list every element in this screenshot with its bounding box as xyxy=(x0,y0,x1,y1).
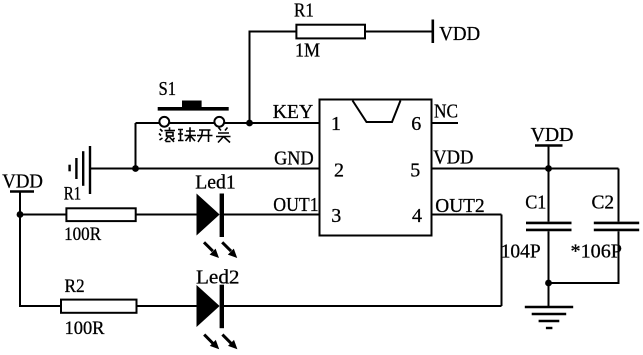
node B (junction on GND row) xyxy=(132,165,139,172)
wire R1 to VDD terminal xyxy=(365,31,432,33)
label OUT2 (pin 4) xyxy=(435,195,484,217)
svg-text:R1: R1 xyxy=(294,0,314,22)
LED Led2 xyxy=(196,267,240,350)
node C (junction on left rail at R1 row) xyxy=(17,211,24,218)
svg-text:*106P: *106P xyxy=(571,241,623,263)
wire VDD row (pin 5 to C2 branch) xyxy=(432,168,619,170)
svg-text:100R: 100R xyxy=(65,318,105,339)
ground (bottom right) xyxy=(525,307,573,328)
svg-text:R1: R1 xyxy=(64,184,81,205)
svg-text:6: 6 xyxy=(411,113,421,135)
switch S1 (pushbutton, ball switch) xyxy=(158,78,229,111)
svg-text:104P: 104P xyxy=(501,241,541,263)
wire switch left leg down to GND row xyxy=(135,123,137,169)
svg-text:100R: 100R xyxy=(64,224,101,245)
pin number 1 xyxy=(331,113,341,135)
svg-text:VDD: VDD xyxy=(531,124,574,146)
svg-text:KEY: KEY xyxy=(273,101,314,123)
wire from node A down to resistor R1 top row xyxy=(250,32,297,124)
svg-text:2: 2 xyxy=(334,160,344,182)
svg-text:VDD: VDD xyxy=(2,171,43,193)
svg-text:Led1: Led1 xyxy=(195,171,236,193)
resistor R1 (1M) xyxy=(294,0,365,62)
svg-text:VDD: VDD xyxy=(439,23,480,45)
wire up from bottom row to OUT2 xyxy=(501,215,503,307)
pin number 6 xyxy=(411,113,421,135)
wire rail to resistor R2 xyxy=(61,305,66,307)
wire R1 to Led1 xyxy=(136,214,197,216)
power VDD (top right) xyxy=(531,124,574,169)
pin number 3 xyxy=(331,205,341,227)
svg-text:NC: NC xyxy=(434,101,458,123)
svg-text:OUT1: OUT1 xyxy=(273,194,318,216)
ground (left, rotated) xyxy=(70,146,90,194)
pin number 5 xyxy=(410,160,420,182)
wire NC stub (pin 6) xyxy=(432,122,459,124)
label OUT1 (pin 3) xyxy=(273,194,318,216)
svg-text:S1: S1 xyxy=(159,78,177,100)
node A (junction on KEY row) xyxy=(246,120,253,127)
power VDD (top, right of R1) xyxy=(433,20,480,46)
wire GND row (ground to IC pin 2) xyxy=(90,168,320,170)
label 滚珠开关 (ball switch, drawn strokes) xyxy=(159,127,231,142)
svg-text:C2: C2 xyxy=(592,192,615,214)
wire KEY row (switch to IC pin 1) xyxy=(136,122,320,124)
svg-text:OUT2: OUT2 xyxy=(435,195,484,217)
resistor R1 (100R) xyxy=(64,184,136,246)
svg-text:4: 4 xyxy=(412,205,422,227)
svg-text:R2: R2 xyxy=(65,276,85,297)
svg-text:Led2: Led2 xyxy=(196,267,240,289)
capacitor C1 (104P) xyxy=(501,169,572,307)
pin number 4 xyxy=(412,205,422,227)
label GND (pin 2) xyxy=(274,147,314,169)
svg-text:1: 1 xyxy=(331,113,341,135)
wire R2 to Led2 xyxy=(137,305,198,307)
node E (junction C1/C2 bottom) xyxy=(545,280,552,287)
wire Led2 cathode right along bottom xyxy=(224,305,502,307)
wire left VDD rail down xyxy=(20,192,66,307)
switch terminal circles xyxy=(159,117,224,127)
LED Led1 xyxy=(195,171,237,258)
label VDD (pin 5) xyxy=(433,146,473,168)
pin number 2 xyxy=(334,160,344,182)
wire Led1 to IC pin 3 xyxy=(224,214,320,216)
svg-text:C1: C1 xyxy=(525,192,546,214)
node D (junction pin5 row / C1) xyxy=(545,165,552,172)
svg-text:GND: GND xyxy=(274,147,314,169)
wire IC pin 4 to vertical xyxy=(432,214,502,216)
label KEY (pin 1) xyxy=(273,101,314,123)
power VDD (left rail) xyxy=(2,171,43,193)
label NC (pin 6) xyxy=(434,101,458,123)
capacitor C2 (*106P) xyxy=(549,169,640,284)
svg-text:VDD: VDD xyxy=(433,146,473,168)
resistor R2 (100R) xyxy=(61,276,137,339)
op-amp U1 (6-pin IC body) xyxy=(320,100,432,236)
wire rail to resistor R1 (100R) xyxy=(20,214,66,216)
svg-text:1M: 1M xyxy=(295,40,320,62)
svg-text:3: 3 xyxy=(331,205,341,227)
svg-text:5: 5 xyxy=(410,160,420,182)
